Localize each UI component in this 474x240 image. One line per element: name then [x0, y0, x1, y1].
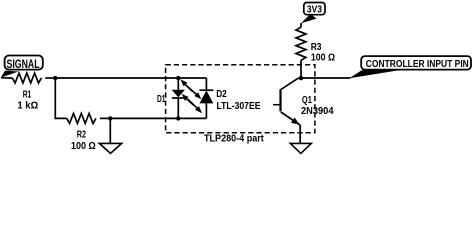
ground GND1: [99, 143, 121, 153]
svg-text:TLP280-4 part: TLP280-4 part: [204, 134, 264, 145]
junction collector node: [299, 76, 303, 80]
transistor Q1: [273, 78, 301, 125]
wire to output flag: [301, 77, 351, 79]
wire top rail: [55, 77, 206, 79]
wire emitter to ground: [299, 125, 301, 143]
light arrow C up-left: [182, 94, 194, 105]
junction D1 bottom: [176, 116, 180, 120]
wire 3V3 to R3: [300, 23, 302, 27]
light arrow D down-right: [188, 99, 202, 113]
svg-text:R1: R1: [23, 90, 32, 101]
junction ground tap: [108, 116, 112, 120]
svg-text:SIGNAL: SIGNAL: [7, 59, 40, 71]
resistor R3: [296, 27, 306, 60]
resistor R1: [12, 73, 41, 83]
net flag CONTROLLER INPUT PIN: [349, 56, 471, 78]
junction after R1: [53, 76, 57, 80]
ground GND2: [290, 143, 311, 153]
svg-text:D1: D1: [157, 94, 166, 105]
optocoupler dashed box TLP280-4: [166, 65, 315, 133]
svg-text:1 kΩ: 1 kΩ: [17, 100, 38, 111]
light arrow A up-left: [180, 79, 192, 91]
svg-text:LTL-307EE: LTL-307EE: [217, 100, 261, 112]
svg-text:D2: D2: [216, 89, 227, 100]
diode D1: [172, 78, 185, 118]
svg-text:R3: R3: [311, 42, 322, 53]
wire R3 to collector node: [300, 60, 302, 78]
svg-text:Q1: Q1: [302, 95, 312, 106]
supply flag 3V3: [301, 3, 325, 24]
svg-text:R2: R2: [77, 130, 87, 141]
junction D1 top: [176, 76, 180, 80]
light arrow B down-right: [186, 85, 201, 99]
wire R1 to junction: [45, 77, 55, 79]
svg-text:100 Ω: 100 Ω: [71, 141, 96, 152]
wire bottom rail: [100, 117, 206, 119]
wire ground stem: [109, 118, 111, 143]
resistor R2: [67, 114, 96, 124]
svg-text:3V3: 3V3: [307, 4, 322, 15]
wire SIGNAL lead: [1, 77, 12, 79]
svg-text:2N3904: 2N3904: [301, 106, 334, 117]
net flag SIGNAL: [1, 56, 43, 78]
diode D2: [199, 78, 213, 118]
svg-text:CONTROLLER INPUT PIN: CONTROLLER INPUT PIN: [366, 59, 469, 70]
svg-text:100 Ω: 100 Ω: [311, 53, 335, 64]
wire down to R2 branch: [55, 78, 67, 118]
